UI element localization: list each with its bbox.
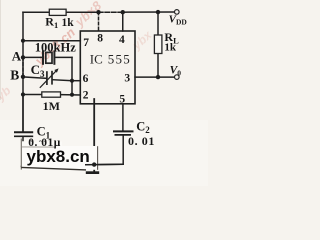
watermark box bottom border	[21, 167, 86, 170]
wire top rail right segment to VDD	[123, 11, 175, 13]
svg-text:7: 7	[83, 37, 89, 49]
wire 1M right lead to pin 2	[61, 94, 81, 96]
svg-text:8: 8	[97, 33, 103, 45]
watermark box top border	[21, 146, 56, 148]
wire C2 bottom lead	[122, 135, 124, 164]
ground symbol	[86, 171, 99, 174]
wire dashed rail between node A and node B	[22, 57, 24, 76]
node dot1 pin8 top	[96, 10, 100, 14]
wire node column	[71, 57, 73, 94]
svg-text:A: A	[12, 49, 22, 64]
svg-text:ybx8.cn: ybx8.cn	[27, 147, 90, 166]
svg-text:5: 5	[119, 94, 125, 106]
wire pin 8 dashed drop	[98, 12, 100, 31]
wire C1 top lead	[22, 95, 24, 132]
svg-text:1k: 1k	[62, 17, 75, 29]
terminal VDD circle	[175, 10, 180, 15]
wire RL bottom to node	[157, 54, 159, 78]
wire top rail dashed segment dot1 to dot2	[99, 11, 123, 13]
svg-text:100kHz: 100kHz	[35, 40, 76, 54]
wire top rail middle segment	[66, 11, 98, 13]
svg-text:1M: 1M	[43, 99, 60, 113]
svg-text:6: 6	[83, 73, 89, 85]
wire top rail left segment	[22, 57, 24, 131]
capacitor C1 plates	[14, 132, 33, 136]
watermark white box	[21, 142, 62, 147]
capacitor C2 plates	[113, 131, 134, 135]
svg-text:555: 555	[108, 52, 131, 67]
node dot2 pin4 top	[121, 10, 125, 14]
wire crystal left lead	[23, 56, 43, 58]
resistor RL box	[154, 35, 162, 54]
wire pin 7	[23, 40, 80, 42]
wire pin 5 drop	[122, 104, 124, 131]
svg-text:2: 2	[83, 89, 89, 101]
svg-text:3: 3	[124, 72, 130, 84]
node column C3 junction	[70, 79, 74, 83]
node dot3 RL top	[156, 10, 160, 14]
wire pin 4 drop	[122, 12, 124, 31]
wire crystal right lead to node column	[55, 56, 72, 58]
wire pin 6	[72, 80, 80, 82]
resistor 1M box	[42, 92, 61, 97]
wire ground rail visible right portion	[85, 163, 123, 166]
capacitor C3 variable plates	[40, 68, 59, 87]
wire 1M left lead	[23, 94, 42, 96]
node column 1M junction	[70, 93, 74, 97]
resistor R1 box	[49, 9, 66, 15]
wire pin 1 ground drop	[93, 99, 95, 171]
pink watermark diagonal 1	[0, 0, 155, 104]
wire pin 3 to output node	[135, 76, 175, 78]
svg-text:0. 01: 0. 01	[128, 134, 155, 148]
svg-text:1k: 1k	[164, 41, 177, 53]
capacitor C3 arrow	[40, 70, 58, 88]
wire C3 left lead from node B	[23, 77, 46, 78]
watermark box left border	[20, 139, 22, 170]
svg-text:B: B	[10, 68, 19, 83]
watermark box right border	[97, 146, 99, 170]
node B terminal	[21, 75, 25, 79]
wire RL top drop	[157, 12, 159, 35]
node pin7/rail junction	[21, 39, 25, 43]
scan border left edge	[0, 0, 1, 100]
wire C1 bottom lead stub	[22, 137, 24, 141]
crystal B1 100kHz plates and box	[43, 50, 54, 64]
node RL bottom output	[156, 75, 160, 79]
svg-text:IC: IC	[90, 52, 103, 67]
terminal V0 circle	[175, 75, 180, 80]
node 1M left junction	[21, 92, 25, 96]
wire ground rail	[21, 164, 123, 166]
IC U1 555 box	[80, 31, 135, 104]
node ground junction redraw	[92, 162, 96, 166]
svg-text:4: 4	[119, 34, 125, 46]
node ground junction	[92, 162, 96, 166]
wire C3 right lead	[52, 80, 72, 81]
node A terminal	[21, 55, 25, 59]
